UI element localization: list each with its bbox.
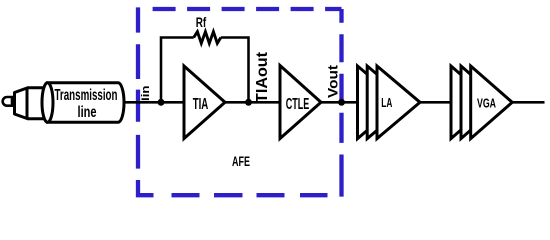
- resistor Rf: [194, 32, 221, 44]
- svg-text:AFE: AFE: [232, 153, 250, 169]
- wire TIA to CTLE: [225, 101, 280, 104]
- transmission line cylinder body: [48, 83, 125, 123]
- svg-text:line: line: [78, 104, 97, 121]
- AFE dashed box left edge: [136, 7, 140, 168]
- wire LA to VGA: [420, 101, 451, 104]
- wire VGA output: [512, 101, 544, 104]
- svg-text:TIAout: TIAout: [254, 51, 271, 103]
- wire CTLE to LA: [321, 101, 358, 104]
- connector barrel lines: [27, 88, 46, 119]
- node TIAout junction dot: [245, 99, 252, 106]
- node Vout junction dot: [338, 99, 345, 106]
- svg-text:Iin: Iin: [140, 85, 152, 101]
- node Iin junction dot: [158, 99, 165, 106]
- AFE dashed box top edge: [153, 7, 342, 11]
- amplifier CTLE: [280, 66, 321, 139]
- amplifier LA: [377, 66, 420, 139]
- svg-text:Transmission: Transmission: [55, 87, 118, 104]
- connector plug body: [15, 88, 28, 119]
- amplifier VGA back slice 1: [451, 66, 493, 139]
- connector plug nub: [3, 97, 12, 106]
- svg-text:CTLE: CTLE: [286, 96, 310, 113]
- amplifier LA back slice 1: [358, 66, 401, 139]
- AFE dashed box right edge: [339, 9, 343, 197]
- amplifier VGA back slice 2: [461, 66, 503, 139]
- svg-text:Vout: Vout: [325, 65, 341, 98]
- svg-text:VGA: VGA: [477, 96, 496, 111]
- AFE dashed box bottom edge: [172, 193, 328, 197]
- amplifier VGA: [471, 66, 513, 139]
- amplifier LA back slice 2: [367, 66, 410, 139]
- svg-text:TIA: TIA: [193, 96, 209, 113]
- svg-text:LA: LA: [381, 95, 392, 110]
- svg-text:Rf: Rf: [196, 14, 207, 30]
- cylinder left face ellipse: [42, 83, 53, 122]
- AFE dashed box bottom-left corner dash: [138, 180, 154, 195]
- wire cylinder to TIA: [124, 101, 184, 104]
- wire feedback loop: [161, 38, 249, 103]
- op-amp TIA: [184, 66, 225, 139]
